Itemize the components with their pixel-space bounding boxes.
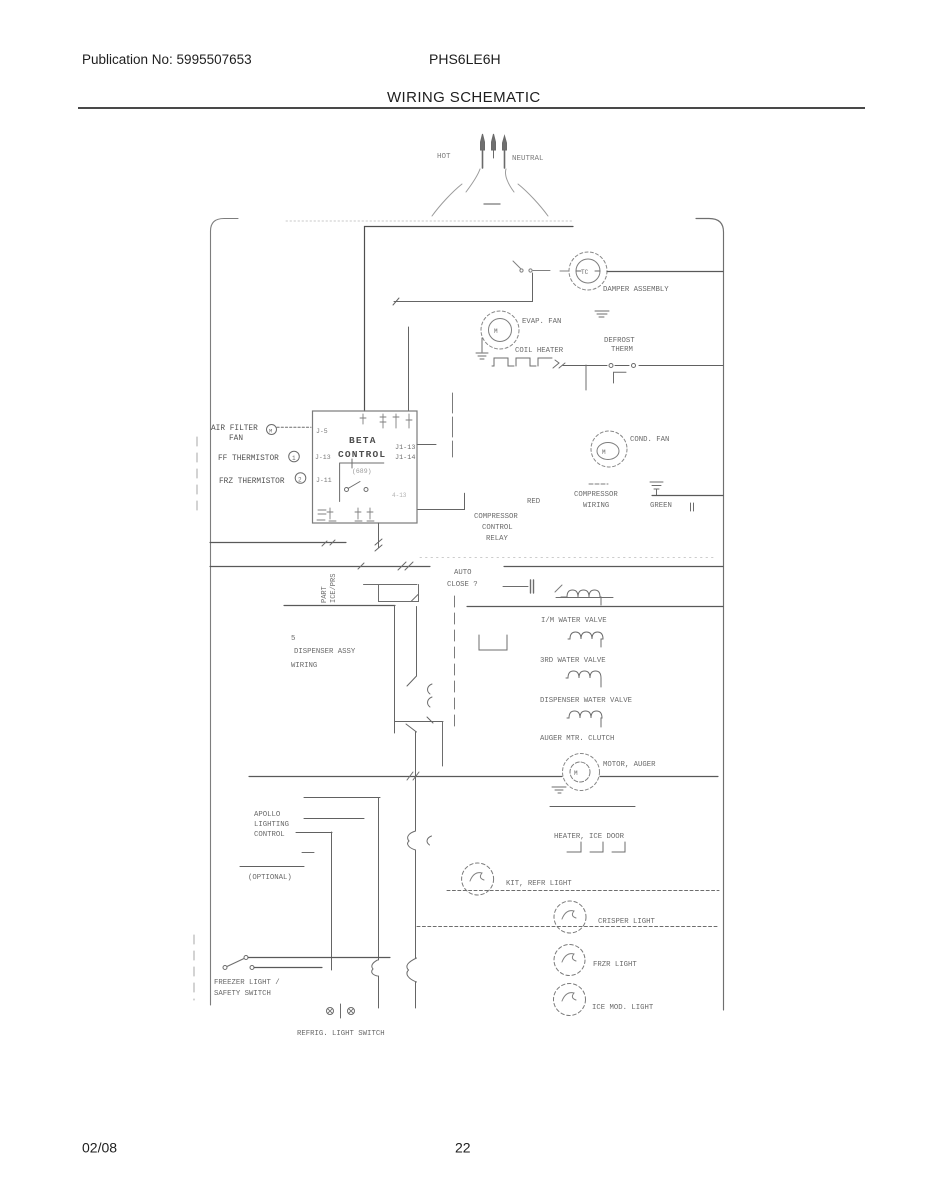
wire rail C left segment (284, 605, 395, 607)
svg-text:J1-14: J1-14 (395, 454, 415, 462)
solenoid aux water valve L2 (568, 632, 603, 647)
wire auger rail right (600, 776, 718, 778)
wire auger rail left (249, 776, 562, 778)
solenoid I/M water valve L1 (561, 590, 601, 605)
power plug P1 body (432, 169, 548, 216)
wire evap fan feed (393, 273, 533, 411)
wire apollo drop 1 (331, 832, 333, 970)
svg-text:CONTROL: CONTROL (338, 449, 386, 460)
wire rail B right segment (504, 566, 723, 568)
svg-text:5: 5 (291, 635, 295, 643)
connector bumps lower on main drop (407, 958, 417, 982)
svg-text:(OPTIONAL): (OPTIONAL) (248, 874, 292, 882)
svg-text:FRZ THERMISTOR: FRZ THERMISTOR (219, 478, 285, 486)
label FREEZER LIGHT / SAFETY SWITCH (214, 979, 280, 998)
switch damper (door switch) (513, 261, 569, 272)
connector chevron on rail A (322, 540, 335, 546)
svg-text:FAN: FAN (229, 435, 243, 443)
svg-text:3RD WATER VALVE: 3RD WATER VALVE (540, 657, 606, 665)
bottom pin marks on board (317, 508, 374, 521)
svg-text:COMPRESSOR: COMPRESSOR (474, 513, 518, 521)
label DEFROST THERM (604, 337, 635, 354)
motor symbol air filter fan (267, 425, 277, 435)
capacitor C1 (503, 580, 534, 593)
wire freezer switch top (248, 957, 390, 959)
svg-text:AUTO: AUTO (454, 569, 472, 577)
svg-text:(689): (689) (352, 468, 372, 475)
fold mark dashes left lower (193, 935, 195, 1000)
thermistor 1 symbol (289, 451, 300, 462)
switch freezer light safety (223, 956, 254, 970)
control board U1 BETA CONTROL (313, 411, 418, 523)
power plug P1 prongs (481, 134, 507, 168)
svg-text:ICE/PRS: ICE/PRS (330, 574, 338, 603)
svg-text:THERM: THERM (611, 346, 633, 354)
apollo wire 2 (304, 818, 364, 820)
label COMPRESSOR CONTROL RELAY (474, 513, 518, 543)
wire relay hook (417, 493, 465, 509)
svg-text:COMPRESSOR: COMPRESSOR (574, 491, 618, 499)
svg-text:SAFETY SWITCH: SAFETY SWITCH (214, 990, 271, 998)
svg-text:22: 22 (455, 1140, 471, 1156)
auger motor M4 (563, 754, 600, 791)
apollo wire 1 (304, 797, 380, 799)
solenoid dispenser water valve L3 (566, 671, 601, 687)
wire rail B from left border (210, 566, 430, 568)
connector chevrons on rail B (358, 562, 413, 570)
svg-text:1: 1 (292, 455, 296, 462)
dashed leader air filter fan (277, 426, 311, 428)
lamp freezer light (554, 945, 585, 976)
solenoid auger clutch L4 (567, 711, 602, 727)
wire board drop with splice (375, 539, 382, 551)
svg-text:NEUTRAL: NEUTRAL (512, 155, 544, 163)
svg-text:M: M (574, 770, 578, 777)
svg-text:M: M (494, 328, 498, 335)
svg-text:FF THERMISTOR: FF THERMISTOR (218, 455, 279, 463)
wire rail A from left border (210, 542, 346, 544)
label AUTO CLOSE (447, 569, 478, 589)
wire vertical stub D (442, 722, 444, 767)
apollo wire 4 (302, 852, 314, 854)
svg-text:RELAY: RELAY (486, 535, 509, 543)
apollo wire 5 (240, 866, 304, 868)
wire vertical dispenser B (407, 607, 417, 687)
board internal switch (345, 482, 369, 492)
cabinet border left side (211, 219, 239, 1006)
thermistor 2 symbol (295, 473, 306, 484)
tick marks under green wire (691, 503, 694, 511)
wire ice door heater feed (550, 806, 635, 808)
dashed wire crisper rail (417, 926, 719, 928)
wire apollo drop 2 (378, 798, 380, 1009)
wire J1-13 stub (417, 444, 436, 446)
svg-text:J-13: J-13 (315, 454, 331, 461)
wire dispenser jog (395, 717, 444, 732)
wire stub right of defrost (452, 393, 454, 457)
svg-text:02/08: 02/08 (82, 1140, 117, 1156)
svg-text:M: M (602, 449, 606, 456)
board internal relay line (340, 459, 384, 502)
svg-text:J-11: J-11 (316, 477, 332, 484)
svg-text:Publication No: 5995507653: Publication No: 5995507653 (82, 52, 252, 67)
svg-text:LIGHTING: LIGHTING (254, 821, 289, 829)
solenoid I/M water valve L1 lead (556, 597, 613, 599)
svg-text:ICE MOD. LIGHT: ICE MOD. LIGHT (592, 1004, 654, 1012)
label APOLLO LIGHTING CONTROL (254, 811, 289, 839)
ground compressor (650, 482, 663, 495)
fold mark dashes left upper (196, 437, 198, 513)
connector chevrons heater line (553, 360, 565, 368)
svg-text:DAMPER ASSEMBLY: DAMPER ASSEMBLY (603, 286, 669, 294)
svg-text:WIRING: WIRING (291, 662, 317, 670)
ground evap fan (476, 338, 488, 359)
svg-text:KIT, REFR LIGHT: KIT, REFR LIGHT (506, 880, 572, 888)
svg-text:J-5: J-5 (316, 428, 328, 435)
svg-text:PHS6LE6H: PHS6LE6H (429, 51, 501, 67)
condenser fan motor M3 (591, 431, 627, 467)
cabinet border right side (696, 219, 724, 1011)
svg-text:4-13: 4-13 (392, 492, 407, 499)
wire defrost thermostat line (563, 365, 723, 367)
ground auger motor (552, 787, 566, 793)
connector bumps on drop 2 (372, 960, 378, 976)
svg-text:MOTOR, AUGER: MOTOR, AUGER (603, 761, 656, 769)
wire vertical main drop (415, 732, 417, 1008)
cabinet border top faint dotted (286, 220, 572, 222)
svg-text:CLOSE ?: CLOSE ? (447, 581, 478, 589)
svg-text:REFRIG. LIGHT SWITCH: REFRIG. LIGHT SWITCH (297, 1030, 385, 1038)
svg-text:BETA: BETA (349, 435, 377, 446)
wire board bottom exit (378, 523, 380, 543)
svg-text:RED: RED (527, 498, 541, 506)
wire rail C right segment (467, 606, 723, 608)
dash above compressor label (589, 483, 608, 485)
svg-text:WIRING: WIRING (583, 502, 609, 510)
dashed wire refr light rail (447, 890, 719, 892)
defrost thermostat contacts (609, 364, 636, 368)
svg-text:CONTROL: CONTROL (254, 831, 285, 839)
wire freezer switch bottom (254, 967, 322, 969)
label COMPRESSOR WIRING (574, 491, 618, 510)
ground near damper (595, 311, 609, 317)
svg-text:CONTROL: CONTROL (482, 524, 513, 532)
connector bumps upper on main drop (408, 831, 432, 850)
ice maker connector block (364, 585, 419, 602)
svg-text:AIR FILTER: AIR FILTER (211, 425, 258, 433)
wire hot feed under plug (365, 227, 574, 412)
svg-text:APOLLO: APOLLO (254, 811, 281, 819)
damper assembly motor M1 (569, 252, 607, 290)
lamp crisper light (554, 901, 586, 933)
resistor defrost coil heater (492, 358, 552, 366)
svg-text:FREEZER LIGHT /: FREEZER LIGHT / (214, 979, 280, 987)
label 5 DISPENSER ASSY WIRING (291, 635, 356, 670)
wire compressor to right rail (652, 495, 723, 497)
svg-text:DEFROST: DEFROST (604, 337, 635, 345)
apollo wire 3 (296, 832, 332, 834)
lamp kit refr light (462, 863, 494, 895)
svg-text:HEATER, ICE DOOR: HEATER, ICE DOOR (554, 833, 625, 841)
svg-text:EVAP. FAN: EVAP. FAN (522, 318, 561, 326)
svg-text:HOT: HOT (437, 153, 451, 161)
faint fold dotted line (420, 557, 714, 559)
lamp ice mod light (554, 984, 586, 1016)
refrig light switch contacts (327, 1004, 355, 1018)
wire damper to right rail (607, 271, 723, 273)
open-top box connector (479, 635, 507, 650)
svg-text:WIRING SCHEMATIC: WIRING SCHEMATIC (387, 89, 541, 106)
svg-text:PART: PART (321, 586, 329, 603)
label AIR FILTER FAN (211, 425, 258, 443)
dashed harness line (454, 596, 456, 728)
title rule (78, 107, 865, 109)
svg-text:COIL HEATER: COIL HEATER (515, 347, 564, 355)
svg-text:I/M WATER VALVE: I/M WATER VALVE (541, 617, 607, 625)
svg-text:DISPENSER ASSY: DISPENSER ASSY (294, 648, 356, 656)
top pin marks on board (360, 414, 412, 428)
svg-text:M: M (269, 428, 272, 435)
connector chevrons auger rail (407, 772, 419, 780)
svg-text:J1-13: J1-13 (395, 444, 415, 452)
svg-text:COND. FAN: COND. FAN (630, 436, 669, 444)
svg-text:2: 2 (298, 477, 302, 484)
wire vertical dispenser A (394, 606, 396, 734)
rotated label PART ICE/PRS (321, 574, 338, 603)
svg-text:GREEN: GREEN (650, 502, 672, 510)
splice mark on connector block (555, 585, 562, 592)
evaporator fan motor M2 (481, 311, 519, 349)
svg-text:CRISPER LIGHT: CRISPER LIGHT (598, 918, 656, 926)
connector chevrons dispenser (428, 684, 432, 707)
stub below defrost line (585, 365, 587, 390)
svg-text:DISPENSER WATER VALVE: DISPENSER WATER VALVE (540, 697, 632, 705)
bracket below defrost contact (614, 372, 627, 383)
resistor ice door heater (567, 842, 625, 852)
svg-text:FRZR LIGHT: FRZR LIGHT (593, 961, 637, 969)
svg-text:TC: TC (581, 269, 589, 276)
svg-text:AUGER MTR. CLUTCH: AUGER MTR. CLUTCH (540, 735, 614, 743)
